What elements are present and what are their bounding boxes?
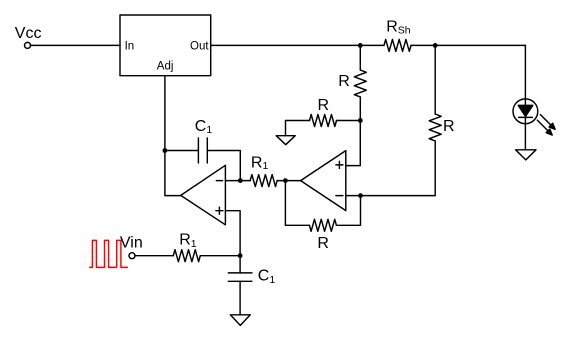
label R upper bbox=[338, 73, 350, 90]
resistor RSh bbox=[384, 39, 411, 51]
label Adj bbox=[157, 61, 174, 73]
svg-text:Vin: Vin bbox=[120, 235, 143, 252]
wire U2 minus pin bbox=[225, 180, 240, 182]
svg-text:R1: R1 bbox=[179, 232, 197, 250]
junction node R divider bbox=[358, 118, 363, 123]
junction top rail left bbox=[358, 43, 363, 48]
op-amp U3 bbox=[301, 151, 346, 211]
wire down to LED bbox=[524, 45, 526, 105]
op-amp U2 bbox=[181, 165, 226, 225]
wire right R down and to opamp minus bbox=[346, 141, 435, 196]
svg-text:R: R bbox=[443, 118, 455, 135]
resistor R horizontal to ground bbox=[310, 115, 337, 127]
capacitor C1 input bbox=[228, 273, 252, 281]
label C1 feedback bbox=[195, 118, 213, 136]
wire Vcc to regulator In bbox=[31, 44, 120, 46]
wire feedback left leg bbox=[285, 181, 309, 226]
wire node to C1 bbox=[239, 256, 241, 273]
resistor R1 input bbox=[173, 250, 200, 262]
wire Vin to R1 bbox=[135, 255, 173, 257]
resistor R right vertical bbox=[429, 114, 441, 141]
wire top rail down to right R bbox=[434, 45, 436, 114]
wire Adj pin bbox=[164, 76, 166, 151]
junction Adj node bbox=[163, 148, 168, 153]
wire C1 to U2 minus node bbox=[207, 151, 240, 181]
wire gnd bend to R horizontal bbox=[286, 121, 310, 136]
wire RSh to LED branch bbox=[411, 44, 525, 46]
wire top rail to R left bbox=[359, 45, 361, 70]
wire regulator Out to RSh bbox=[211, 44, 384, 46]
svg-text:R: R bbox=[338, 73, 350, 90]
ground left middle bbox=[276, 136, 295, 145]
svg-text:R: R bbox=[317, 235, 329, 252]
label Out bbox=[190, 41, 209, 53]
ground under C1 bbox=[230, 315, 250, 326]
svg-text:Adj: Adj bbox=[157, 61, 174, 73]
label Vcc bbox=[15, 25, 42, 42]
node Vcc terminal bbox=[25, 42, 31, 48]
label R1 input bbox=[179, 232, 197, 250]
wire R1 left lead bbox=[240, 180, 250, 182]
svg-text:In: In bbox=[125, 41, 135, 53]
label Vin bbox=[120, 235, 143, 252]
ground under LED bbox=[516, 150, 536, 160]
wire U3 output bbox=[285, 180, 300, 182]
label R right bbox=[443, 118, 455, 135]
resistor R feedback bbox=[309, 219, 336, 231]
label C1 input bbox=[258, 268, 276, 286]
wire U2 plus pin bbox=[225, 211, 240, 256]
label RSh bbox=[386, 19, 411, 37]
wire R1 to C1 node bbox=[200, 255, 240, 257]
svg-text:R1: R1 bbox=[251, 154, 269, 172]
junction top rail right bbox=[433, 43, 438, 48]
wire R to junction node bbox=[337, 120, 361, 122]
label R feedback bbox=[317, 235, 329, 252]
svg-text:Vcc: Vcc bbox=[15, 25, 42, 42]
junction opamp U3 minus bbox=[358, 193, 363, 198]
wire Adj node to C1 bbox=[165, 150, 199, 152]
wire U3 feedback right leg bbox=[336, 196, 360, 226]
wire U2 output to Adj node bbox=[165, 151, 181, 196]
pulse waveform Vin bbox=[90, 240, 128, 267]
wire R1 right lead bbox=[277, 180, 285, 182]
label In bbox=[125, 41, 135, 53]
regulator U1 box bbox=[120, 15, 211, 76]
resistor R1 middle bbox=[250, 175, 277, 187]
svg-text:C1: C1 bbox=[258, 268, 276, 286]
wire LED to ground bbox=[524, 117, 526, 149]
node Vin terminal bbox=[129, 253, 135, 259]
wire junction down to opamp plus bbox=[346, 121, 361, 166]
junction U2 minus node bbox=[238, 178, 243, 183]
capacitor C1 feedback bbox=[198, 138, 207, 163]
svg-text:R: R bbox=[318, 97, 330, 114]
junction R1 C1 node bbox=[238, 253, 243, 258]
svg-text:Out: Out bbox=[190, 41, 209, 53]
wire R to junction bbox=[359, 97, 361, 121]
svg-text:C1: C1 bbox=[195, 118, 213, 136]
svg-text:RSh: RSh bbox=[386, 19, 411, 37]
wire C1 to ground bbox=[239, 281, 241, 315]
resistor R upper vertical bbox=[354, 70, 366, 97]
label R horizontal bbox=[318, 97, 330, 114]
LED D1 bbox=[513, 99, 555, 135]
label R1 middle bbox=[251, 154, 269, 172]
junction U3 output node bbox=[283, 178, 288, 183]
